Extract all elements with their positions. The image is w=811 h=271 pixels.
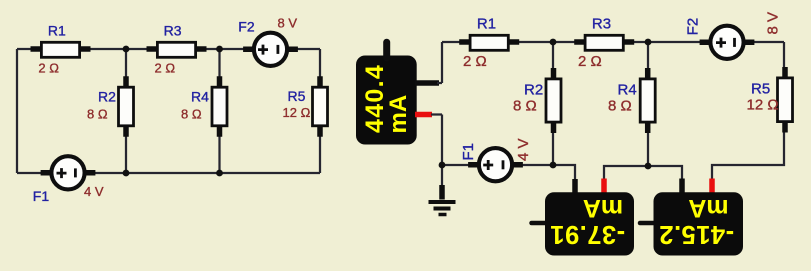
svg-text:F1: F1 [460, 143, 477, 161]
wire meter2 black probe [648, 166, 682, 180]
svg-text:R5: R5 [288, 88, 306, 104]
value 8 &#937; (R2) [87, 106, 108, 121]
junction (F1-R2 bottom node) [550, 162, 557, 169]
svg-text:-37.91: -37.91 [550, 220, 625, 248]
value 8 &#937; (R2 (right)) [513, 98, 537, 115]
resistor R1 [31, 42, 91, 57]
resistor R3 (right) [574, 35, 634, 50]
voltage source F2 [243, 33, 298, 66]
svg-text:R3: R3 [164, 23, 182, 39]
svg-text:R4: R4 [618, 82, 637, 99]
label F2 [238, 19, 255, 35]
wire top (right circuit) [442, 41, 784, 43]
svg-text:R5: R5 [751, 81, 770, 98]
voltage source F1 [41, 156, 96, 189]
label R5 (R5) [288, 88, 306, 104]
value 4 V (F1 right, rotated) [515, 138, 532, 161]
junction (R1-R2 node) [123, 46, 130, 53]
svg-text:4 V: 4 V [84, 184, 104, 199]
resistor R1 (right) [459, 35, 519, 50]
svg-text:R1: R1 [48, 23, 66, 39]
value 2 &#937; (R1 (right)) [463, 53, 487, 70]
svg-text:8 Ω: 8 Ω [513, 98, 537, 115]
svg-text:8 V: 8 V [765, 12, 782, 35]
value 8 V (F2 right, rotated) [765, 12, 782, 35]
svg-text:12 Ω: 12 Ω [747, 97, 779, 114]
svg-text:mA: mA [583, 194, 623, 222]
ground [429, 165, 456, 215]
svg-text:4 V: 4 V [515, 138, 532, 161]
label R4 (R4 (right)) [618, 82, 637, 99]
label R3 (R3 (right)) [592, 16, 611, 33]
svg-text:8 Ω: 8 Ω [87, 106, 108, 121]
svg-text:12 Ω: 12 Ω [283, 105, 311, 120]
resistor R3 [147, 42, 207, 57]
label R3 (R3) [164, 23, 182, 39]
ammeter PA2 (-37.91 mA) [532, 179, 635, 256]
ammeter PA1 red probe wire [415, 115, 442, 166]
value 12 &#937; (R5 (right)) [747, 97, 779, 114]
svg-text:F2: F2 [685, 18, 702, 36]
svg-text:8 Ω: 8 Ω [608, 98, 632, 115]
resistor R5 (right) [778, 67, 793, 133]
label R2 (R2 (right)) [524, 82, 543, 99]
svg-text:mA: mA [385, 95, 412, 134]
resistor R2 [119, 76, 134, 136]
svg-text:R3: R3 [592, 16, 611, 33]
wire R2 branch (right circuit) [552, 42, 554, 165]
svg-text:2 Ω: 2 Ω [463, 53, 487, 70]
ammeter PA1 black probe wire [415, 42, 442, 83]
value 2 &#937; (R3 (right)) [578, 53, 602, 70]
wire right vertical (right circuit) [712, 42, 784, 180]
voltage source F2 (right) [700, 26, 755, 59]
label R4 (R4) [191, 89, 209, 105]
ammeter PA3 reading -415.2 mA [659, 194, 734, 248]
resistor R2 (right) [546, 68, 561, 133]
label F2 (right, rotated) [685, 18, 702, 36]
svg-text:mA: mA [688, 194, 728, 222]
resistor R4 [212, 76, 227, 136]
label R1 (R1) [48, 23, 66, 39]
wire right vertical [319, 49, 321, 173]
wire R4 branch (right circuit) [647, 42, 649, 166]
svg-text:8 V: 8 V [278, 16, 298, 31]
wire R2 branch [125, 49, 127, 173]
value 8 V (F2) [278, 16, 298, 31]
value 12 &#937; (R5) [283, 105, 311, 120]
label F1 (right, rotated) [460, 143, 477, 161]
resistor R5 [313, 76, 328, 136]
wire top [17, 48, 320, 50]
junction (R3-R4 node) [216, 46, 223, 53]
svg-text:R2: R2 [524, 82, 543, 99]
svg-text:2 Ω: 2 Ω [578, 53, 602, 70]
svg-text:R4: R4 [191, 89, 209, 105]
resistor R4 (right) [640, 68, 655, 133]
value 8 &#937; (R4) [181, 106, 202, 121]
ammeter PA2 reading -37.91 mA [550, 194, 625, 248]
ammeter PA1 (440.4 mA) [356, 42, 417, 144]
value 2 &#937; (R1) [38, 61, 59, 76]
junction (R2 bottom node) [123, 170, 130, 177]
wire bottom [17, 172, 320, 174]
voltage source F1 (right) [468, 148, 523, 181]
value 2 &#937; (R3) [155, 61, 176, 76]
label R5 (R5 (right)) [751, 81, 770, 98]
svg-text:F2: F2 [238, 19, 255, 35]
wire left vertical [16, 49, 18, 173]
svg-text:2 Ω: 2 Ω [38, 61, 59, 76]
junction (R4 bottom node) [216, 170, 223, 177]
wire meter1 black probe [553, 165, 575, 180]
ammeter PA1 reading 440.4 mA [361, 64, 412, 134]
junction (R3-R4 node right) [645, 39, 652, 46]
ammeter PA3 (-415.2 mA) [640, 179, 743, 256]
value 8 &#937; (R4 (right)) [608, 98, 632, 115]
svg-text:8 Ω: 8 Ω [181, 106, 202, 121]
svg-text:-415.2: -415.2 [659, 220, 734, 248]
junction (R1-R2 node right) [550, 39, 557, 46]
label R2 (R2) [98, 89, 116, 105]
svg-text:R2: R2 [98, 89, 116, 105]
value 4 V (F1) [84, 184, 104, 199]
wire R4 branch [218, 49, 220, 173]
wire F1 node (right circuit) [442, 164, 553, 166]
wire meter1 red probe [604, 166, 648, 180]
label R1 (R1 (right)) [477, 16, 496, 33]
svg-text:2 Ω: 2 Ω [155, 61, 176, 76]
label F1 [33, 188, 50, 204]
svg-text:R1: R1 [477, 16, 496, 33]
junction (ground node) [439, 162, 446, 169]
junction (R4 bottom node) [645, 163, 652, 170]
svg-text:F1: F1 [33, 188, 50, 204]
